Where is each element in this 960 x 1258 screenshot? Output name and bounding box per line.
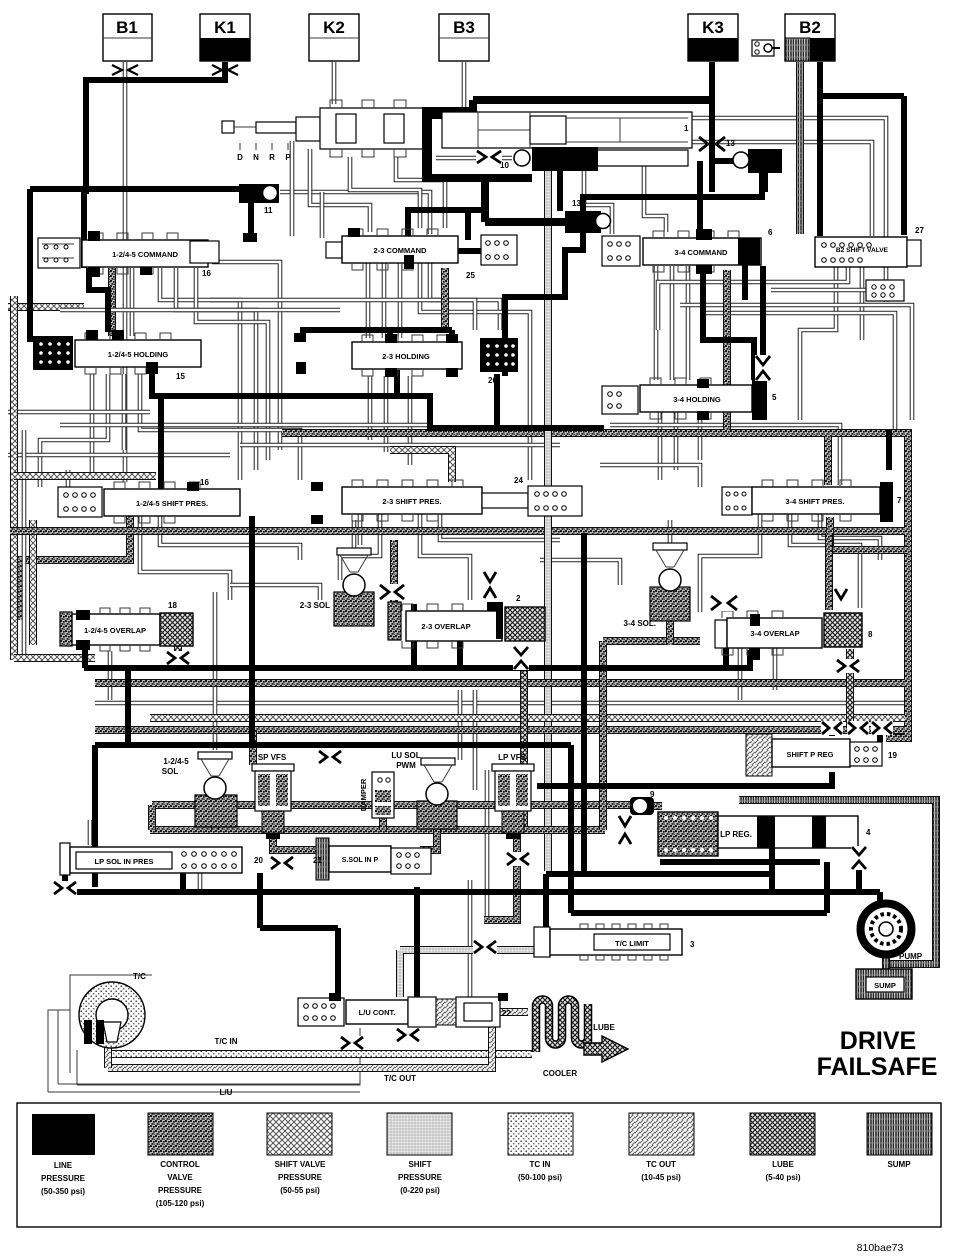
valve port tabs bbox=[86, 228, 760, 1001]
node B2 bbox=[785, 14, 835, 61]
svg-text:LU SOL: LU SOL bbox=[391, 751, 420, 760]
svg-text:SP VFS: SP VFS bbox=[258, 753, 287, 762]
valve 6 port blocks bbox=[696, 229, 712, 240]
check valve at 330,757 bbox=[318, 750, 342, 764]
svg-text:(105-120 psi): (105-120 psi) bbox=[156, 1199, 205, 1208]
check valve at 848,666 bbox=[836, 659, 860, 673]
svg-text:T/C IN: T/C IN bbox=[214, 1037, 237, 1046]
svg-text:13: 13 bbox=[572, 199, 581, 208]
wire 2-3 command left riser bbox=[320, 192, 325, 238]
wire holding row drops (2-3) bbox=[368, 376, 373, 440]
check valve at 225,70 bbox=[212, 65, 238, 75]
svg-text:PUMP: PUMP bbox=[899, 952, 923, 961]
junction 9 bbox=[630, 790, 655, 815]
svg-text:SHIFT P REG: SHIFT P REG bbox=[787, 750, 834, 759]
wire spring 26 down bbox=[497, 368, 505, 430]
svg-text:L/U: L/U bbox=[220, 1088, 233, 1097]
svg-text:(5-40 psi): (5-40 psi) bbox=[765, 1173, 800, 1182]
legend control valve pressure bbox=[148, 1113, 213, 1208]
svg-text:1: 1 bbox=[684, 124, 689, 133]
svg-text:1-2/4-5 COMMAND: 1-2/4-5 COMMAND bbox=[112, 250, 178, 259]
solenoid SP VFS bbox=[252, 753, 294, 839]
svg-text:16: 16 bbox=[200, 478, 209, 487]
valve 25 2-3 COMMAND bbox=[326, 229, 517, 280]
valve 4 LP REG bbox=[658, 812, 871, 856]
wire 13b chain to spring 26 bbox=[505, 233, 583, 341]
wire long cross run B bbox=[210, 300, 475, 330]
svg-text:1-2/4-5 HOLDING: 1-2/4-5 HOLDING bbox=[108, 350, 169, 359]
wire valve1 to right wall bbox=[692, 118, 886, 302]
channel 3-4 sol feed bbox=[603, 641, 700, 830]
svg-text:SHIFT VALVE: SHIFT VALVE bbox=[275, 1160, 326, 1169]
wire K3 drop bbox=[709, 62, 715, 192]
wire right main bbox=[583, 173, 762, 212]
wire B2 shift valve drops bbox=[800, 267, 836, 420]
svg-text:2-3 COMMAND: 2-3 COMMAND bbox=[374, 246, 428, 255]
node K3 bbox=[688, 14, 738, 61]
svg-text:6: 6 bbox=[768, 228, 773, 237]
svg-text:810bae73: 810bae73 bbox=[857, 1242, 904, 1254]
svg-text:11: 11 bbox=[264, 206, 273, 215]
svg-text:18: 18 bbox=[168, 601, 177, 610]
wire shift pres drops (3-4) bbox=[700, 514, 760, 612]
manual valve shaft bbox=[222, 100, 424, 162]
svg-text:(0-220 psi): (0-220 psi) bbox=[400, 1186, 440, 1195]
svg-text:B1: B1 bbox=[116, 18, 138, 37]
svg-text:(50-100 psi): (50-100 psi) bbox=[518, 1173, 562, 1182]
check valve at 352,1043 bbox=[340, 1036, 364, 1050]
wire lp reg bowtie drop bbox=[856, 848, 862, 895]
check valve at 489,157 bbox=[476, 150, 502, 164]
legend tc out bbox=[629, 1113, 694, 1182]
channel tc in bbox=[104, 1042, 532, 1054]
channel cv valve6 drop bbox=[723, 270, 731, 430]
wire holding main bbox=[152, 370, 604, 428]
svg-text:LUBE: LUBE bbox=[593, 1023, 615, 1032]
channel L/U CONT right loop bbox=[500, 1008, 528, 1016]
solenoid LP VFS bbox=[492, 753, 534, 839]
node B3 bbox=[439, 14, 489, 61]
node B1 bbox=[103, 14, 152, 61]
svg-text:K2: K2 bbox=[323, 18, 345, 37]
valve 5 3-4 HOLDING bbox=[602, 378, 777, 420]
wire LP SOL risers bbox=[88, 820, 93, 845]
svg-text:L/U CONT.: L/U CONT. bbox=[359, 1008, 396, 1017]
wire command row port drops (3-4) bbox=[654, 266, 659, 380]
solenoid LU SOL PWM + damper bbox=[359, 751, 457, 829]
svg-text:COOLER: COOLER bbox=[543, 1069, 577, 1078]
lube arrow bbox=[584, 1023, 628, 1062]
wire B3 drop bbox=[462, 62, 467, 112]
wire L/U riser bbox=[414, 887, 420, 999]
svg-text:2-3 HOLDING: 2-3 HOLDING bbox=[382, 352, 430, 361]
valve 16 1-2/4-5 SHIFT PRES bbox=[58, 478, 240, 523]
svg-text:TC OUT: TC OUT bbox=[646, 1160, 676, 1169]
wire command row port drops (1-2/4-5) bbox=[130, 268, 135, 336]
solenoid 2-3 SOL bbox=[300, 548, 374, 626]
svg-text:1-2/4-5 OVERLAP: 1-2/4-5 OVERLAP bbox=[84, 626, 146, 635]
svg-text:SOL: SOL bbox=[162, 767, 179, 776]
wire b2 shift valve bottom runs bbox=[658, 267, 848, 330]
wire junction 11 right bbox=[280, 192, 430, 234]
channel cv valve25 drop bbox=[441, 268, 449, 330]
svg-text:(10-45 psi): (10-45 psi) bbox=[641, 1173, 681, 1182]
svg-text:26: 26 bbox=[488, 376, 497, 385]
svg-text:DRIVE: DRIVE bbox=[840, 1027, 916, 1055]
svg-text:1-2/4-5 SHIFT PRES.: 1-2/4-5 SHIFT PRES. bbox=[136, 499, 208, 508]
svg-text:LP VFS: LP VFS bbox=[498, 753, 527, 762]
wire shift p reg feed bbox=[537, 772, 832, 786]
wire overlap row stubs bbox=[108, 651, 113, 700]
wire valve1 left cap drop bbox=[424, 178, 565, 222]
sump bbox=[856, 969, 912, 999]
svg-text:T/C LIMIT: T/C LIMIT bbox=[615, 939, 649, 948]
valve 24 2-3 SHIFT PRES bbox=[342, 476, 582, 521]
wire command row port drops (2-3) bbox=[366, 263, 371, 338]
solenoid 3-4 SOL bbox=[624, 543, 690, 628]
channel sol rails bbox=[152, 801, 636, 809]
node K2 bbox=[309, 14, 359, 61]
check valve at 832,728 bbox=[821, 721, 843, 735]
node K1 bbox=[200, 14, 250, 61]
svg-text:1-2/4-5: 1-2/4-5 bbox=[163, 757, 189, 766]
svg-text:9: 9 bbox=[650, 790, 655, 799]
torque converter T/C bbox=[58, 972, 360, 1084]
wire 1-2/4-5 shift pres drop bbox=[158, 396, 164, 516]
check valve at 392,592 bbox=[379, 584, 405, 600]
svg-text:27: 27 bbox=[915, 226, 924, 235]
svg-text:S.SOL IN P: S.SOL IN P bbox=[342, 857, 379, 864]
svg-text:PWM: PWM bbox=[396, 761, 416, 770]
wire 2-3 command to plug bbox=[458, 248, 481, 254]
svg-text:CONTROL: CONTROL bbox=[160, 1160, 200, 1169]
svg-text:N: N bbox=[253, 153, 259, 162]
svg-text:2-3 OVERLAP: 2-3 OVERLAP bbox=[421, 622, 470, 631]
channel b2 sump drop bbox=[796, 62, 804, 234]
check valve at 858,728 bbox=[847, 721, 869, 735]
svg-text:3-4 HOLDING: 3-4 HOLDING bbox=[673, 395, 721, 404]
check valve at 485,947 bbox=[473, 940, 497, 954]
wire K2 drop bbox=[332, 62, 337, 104]
channel rails under overlap bbox=[95, 679, 905, 687]
svg-text:2-3 SOL: 2-3 SOL bbox=[300, 601, 330, 610]
svg-text:B2 SHIFT VALVE: B2 SHIFT VALVE bbox=[836, 247, 889, 254]
svg-text:LP SOL IN PRES: LP SOL IN PRES bbox=[95, 857, 154, 866]
svg-text:R: R bbox=[269, 153, 275, 162]
valve 22 L/U CONT bbox=[298, 997, 511, 1027]
svg-text:K3: K3 bbox=[702, 18, 724, 37]
svg-text:LUBE: LUBE bbox=[772, 1160, 794, 1169]
legend lube bbox=[750, 1113, 815, 1182]
svg-text:22: 22 bbox=[502, 1009, 511, 1018]
svg-text:16: 16 bbox=[202, 269, 211, 278]
check valve at 723,575 bbox=[710, 595, 738, 611]
wire left main bbox=[30, 189, 251, 342]
wire 3-4 command right drop bbox=[703, 265, 763, 380]
wire B1 drop bbox=[123, 62, 128, 482]
svg-text:P: P bbox=[285, 153, 291, 162]
wire holding row drops (3-4) bbox=[658, 412, 663, 480]
channel tc out bbox=[108, 1027, 492, 1068]
valve 8 3-4 OVERLAP bbox=[715, 611, 873, 655]
svg-text:3-4 OVERLAP: 3-4 OVERLAP bbox=[750, 629, 799, 638]
wire cross run under holding bbox=[8, 410, 150, 415]
svg-text:7: 7 bbox=[897, 496, 902, 505]
junction 11 bbox=[239, 184, 279, 215]
junction 13b bbox=[565, 199, 611, 233]
valve 27 spring box bbox=[866, 280, 904, 301]
legend tc in bbox=[508, 1113, 573, 1182]
wire 10 junction drop bbox=[557, 171, 563, 211]
svg-text:B3: B3 bbox=[453, 18, 475, 37]
wire long cross run A bbox=[60, 308, 340, 313]
svg-text:21: 21 bbox=[313, 856, 322, 865]
svg-text:VALVE: VALVE bbox=[167, 1173, 193, 1182]
svg-text:TC IN: TC IN bbox=[530, 1160, 551, 1169]
svg-text:20: 20 bbox=[254, 856, 263, 865]
wire mid rail thin bbox=[95, 701, 905, 706]
check valve bowties bbox=[53, 65, 893, 1050]
valve 18 1-2/4-5 OVERLAP bbox=[60, 601, 193, 651]
svg-text:3-4 SHIFT PRES.: 3-4 SHIFT PRES. bbox=[785, 497, 844, 506]
wire shift pres drops (1-2/4-5) bbox=[20, 516, 130, 620]
valve 21 S.SOL IN P bbox=[313, 838, 431, 880]
chevron arrows bbox=[484, 572, 496, 582]
svg-text:DAMPER: DAMPER bbox=[359, 778, 368, 811]
valve 27 B2 SHIFT VALVE bbox=[815, 226, 924, 267]
svg-text:K1: K1 bbox=[214, 18, 236, 37]
svg-text:5: 5 bbox=[772, 393, 777, 402]
svg-text:PRESSURE: PRESSURE bbox=[278, 1173, 323, 1182]
svg-text:3: 3 bbox=[690, 940, 695, 949]
wire shift pres drops (2-3) bbox=[358, 514, 363, 545]
cooler coil bbox=[536, 1000, 588, 1078]
wire manual valve drops bbox=[290, 141, 295, 236]
wire 2-3 holding top feeds bbox=[300, 330, 452, 342]
legend frame bbox=[17, 1103, 941, 1227]
junction 10 bbox=[500, 147, 598, 171]
svg-text:T/C OUT: T/C OUT bbox=[384, 1074, 416, 1083]
check valve at 65,888 bbox=[53, 881, 77, 895]
svg-text:LP REG.: LP REG. bbox=[720, 830, 752, 839]
aux pump icon left of B2 bbox=[752, 40, 780, 56]
wire right stub bbox=[886, 430, 892, 470]
svg-text:PRESSURE: PRESSURE bbox=[398, 1173, 443, 1182]
wire shift pres leftbox riser bbox=[66, 470, 71, 487]
valve 26 2-3 HOLDING bbox=[352, 335, 518, 385]
valve 2 2-3 OVERLAP bbox=[388, 594, 545, 648]
svg-text:FAILSAFE: FAILSAFE bbox=[817, 1053, 938, 1081]
check valve at 518,859 bbox=[506, 852, 530, 866]
solenoid 1-2/4-5 SOL bbox=[162, 752, 237, 827]
check valve at 282,863 bbox=[270, 856, 294, 870]
wire L/U line bbox=[77, 1028, 360, 1085]
svg-text:24: 24 bbox=[514, 476, 523, 485]
svg-text:SUMP: SUMP bbox=[874, 981, 896, 990]
legend shift valve pressure bbox=[267, 1113, 332, 1195]
junction 13a bbox=[726, 139, 782, 173]
legend shift pressure bbox=[387, 1113, 452, 1195]
channel shift pres vertical bbox=[544, 170, 552, 871]
svg-text:15: 15 bbox=[176, 372, 185, 381]
svg-text:T/C: T/C bbox=[133, 972, 146, 981]
check valve at 712,144 bbox=[699, 137, 725, 151]
svg-text:B2: B2 bbox=[799, 18, 821, 37]
svg-text:2-3 SHIFT PRES.: 2-3 SHIFT PRES. bbox=[382, 497, 441, 506]
svg-text:3-4 SOL.: 3-4 SOL. bbox=[624, 619, 656, 628]
check valve at 882,728 bbox=[871, 721, 893, 735]
wire sol drops bbox=[352, 520, 357, 548]
svg-text:(50-350 psi): (50-350 psi) bbox=[41, 1187, 85, 1196]
wire lower region risers bbox=[213, 592, 218, 750]
svg-text:SUMP: SUMP bbox=[887, 1160, 911, 1169]
svg-text:SHIFT: SHIFT bbox=[408, 1160, 431, 1169]
svg-text:PRESSURE: PRESSURE bbox=[158, 1186, 203, 1195]
wire L/U CONT riser pair bbox=[468, 880, 473, 997]
wire holding row drops (1-2/4-5) bbox=[90, 374, 95, 480]
wire manual valve to junction 10 bbox=[436, 156, 512, 161]
svg-text:LINE: LINE bbox=[54, 1161, 73, 1170]
wire top main to K3 bbox=[473, 100, 712, 120]
valve 20 LP SOL IN PRES bbox=[60, 843, 263, 875]
valve 16 1-2/4-5 COMMAND bbox=[38, 233, 219, 278]
channel left wall shift-valve-pressure bbox=[10, 296, 18, 660]
wire y928 run to L/U bbox=[260, 873, 338, 1000]
check valve at 763,368 bbox=[755, 355, 771, 381]
channel sump pump loop bbox=[739, 800, 936, 964]
valve 7 3-4 SHIFT PRES bbox=[722, 480, 902, 522]
svg-text:(50-55 psi): (50-55 psi) bbox=[280, 1186, 320, 1195]
pump bbox=[861, 904, 923, 962]
svg-text:PRESSURE: PRESSURE bbox=[41, 1174, 86, 1183]
channel cv long mid bbox=[282, 433, 908, 738]
check valve at 178,658 bbox=[166, 651, 190, 665]
wire bottom rails bbox=[65, 848, 880, 928]
valve 15 1-2/4-5 HOLDING bbox=[33, 333, 201, 381]
wire B2 drop bbox=[820, 62, 904, 236]
valve 6 3-4 COMMAND bbox=[602, 228, 773, 272]
check valve at 521,658 bbox=[513, 646, 529, 670]
legend sump bbox=[867, 1113, 932, 1169]
check valve at 125,70 bbox=[112, 65, 138, 75]
svg-text:2: 2 bbox=[516, 594, 521, 603]
svg-text:D: D bbox=[237, 153, 243, 162]
wire right reg verticals bbox=[832, 728, 880, 742]
check valve at 859,858 bbox=[851, 846, 867, 870]
wire lower rails bbox=[84, 650, 750, 745]
svg-text:13: 13 bbox=[726, 139, 735, 148]
valve 19 SHIFT P REG bbox=[746, 734, 897, 776]
wire K1 main bbox=[86, 62, 225, 194]
channel 2-3 overlap drop bbox=[520, 658, 528, 830]
svg-text:3-4 COMMAND: 3-4 COMMAND bbox=[675, 248, 729, 257]
svg-text:25: 25 bbox=[466, 271, 475, 280]
wire command left step bbox=[89, 268, 108, 332]
channel LP VFS drop bbox=[484, 833, 517, 920]
check valve at 408,1035 bbox=[396, 1028, 420, 1042]
legend line pressure bbox=[32, 1114, 95, 1196]
svg-text:4: 4 bbox=[866, 828, 871, 837]
valve 1 assembly bbox=[422, 107, 692, 182]
wire 13a stubs bbox=[700, 161, 765, 236]
svg-text:8: 8 bbox=[868, 630, 873, 639]
svg-text:19: 19 bbox=[888, 751, 897, 760]
title DRIVE FAILSAFE bbox=[817, 1027, 938, 1081]
valve 3 T/C LIMIT bbox=[534, 924, 695, 960]
wire center long vertical bbox=[571, 533, 584, 913]
wire k1 to 2-3 command bbox=[408, 210, 487, 240]
